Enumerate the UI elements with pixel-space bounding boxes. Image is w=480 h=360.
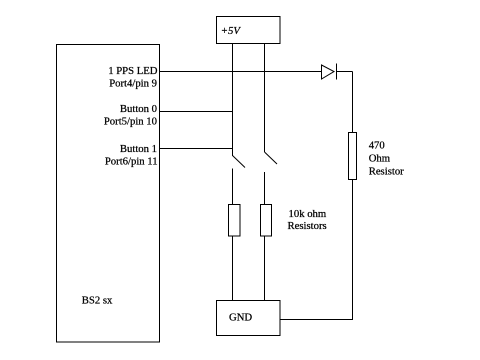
svg-text:10k ohm: 10k ohm — [289, 208, 327, 220]
svg-text:Button 0: Button 0 — [120, 103, 157, 115]
resistor R3 10k — [261, 205, 327, 237]
svg-text:Resistors: Resistors — [288, 220, 327, 232]
svg-text:GND: GND — [229, 312, 252, 324]
resistor R2 10k — [229, 205, 241, 237]
wire diode cathode to corner — [337, 71, 353, 73]
svg-text:+5V: +5V — [221, 25, 242, 37]
svg-text:1 PPS LED: 1 PPS LED — [108, 65, 158, 77]
resistor R1 470 Ohm — [349, 133, 405, 180]
wire +5V to switch SW1 — [232, 44, 234, 156]
wire +5V to switch SW2 — [264, 44, 266, 152]
wire switch SW1 to resistor R2 — [232, 169, 234, 205]
svg-text:Port4/pin 9: Port4/pin 9 — [109, 78, 157, 90]
svg-text:BS2 sx: BS2 sx — [82, 295, 113, 307]
label 1 PPS LED Port4/pin 9 — [108, 65, 158, 89]
svg-text:Ohm: Ohm — [369, 153, 391, 165]
wire bottom corner to GND box — [280, 319, 353, 321]
label Button 1 Port6/pin 11 — [105, 143, 158, 167]
switch SW1 Button0 blade — [233, 156, 246, 168]
svg-text:Button 1: Button 1 — [120, 143, 157, 155]
wire down to resistor R1 — [352, 72, 354, 133]
wire pin11 to node — [160, 148, 233, 150]
wire resistor R1 to bottom corner — [352, 180, 354, 321]
svg-text:Port5/pin 10: Port5/pin 10 — [104, 115, 157, 127]
power supply box +5V — [217, 17, 281, 44]
wire switch SW2 to resistor R3 — [264, 172, 266, 204]
wire pin9 to diode anode — [160, 71, 321, 73]
switch SW2 Button1 blade — [265, 152, 278, 164]
wire resistor R3 to GND — [264, 236, 266, 301]
svg-text:470: 470 — [369, 139, 385, 151]
IC box U1 BS2sx — [57, 45, 160, 343]
diode D1 LED — [322, 64, 337, 80]
wire pin10 to node — [160, 111, 233, 113]
wire resistor R2 to GND — [232, 236, 234, 301]
ground box GND — [217, 301, 281, 336]
svg-text:Resistor: Resistor — [369, 166, 404, 178]
label Button 0 Port5/pin 10 — [104, 103, 157, 127]
svg-text:Port6/pin 11: Port6/pin 11 — [105, 155, 158, 167]
